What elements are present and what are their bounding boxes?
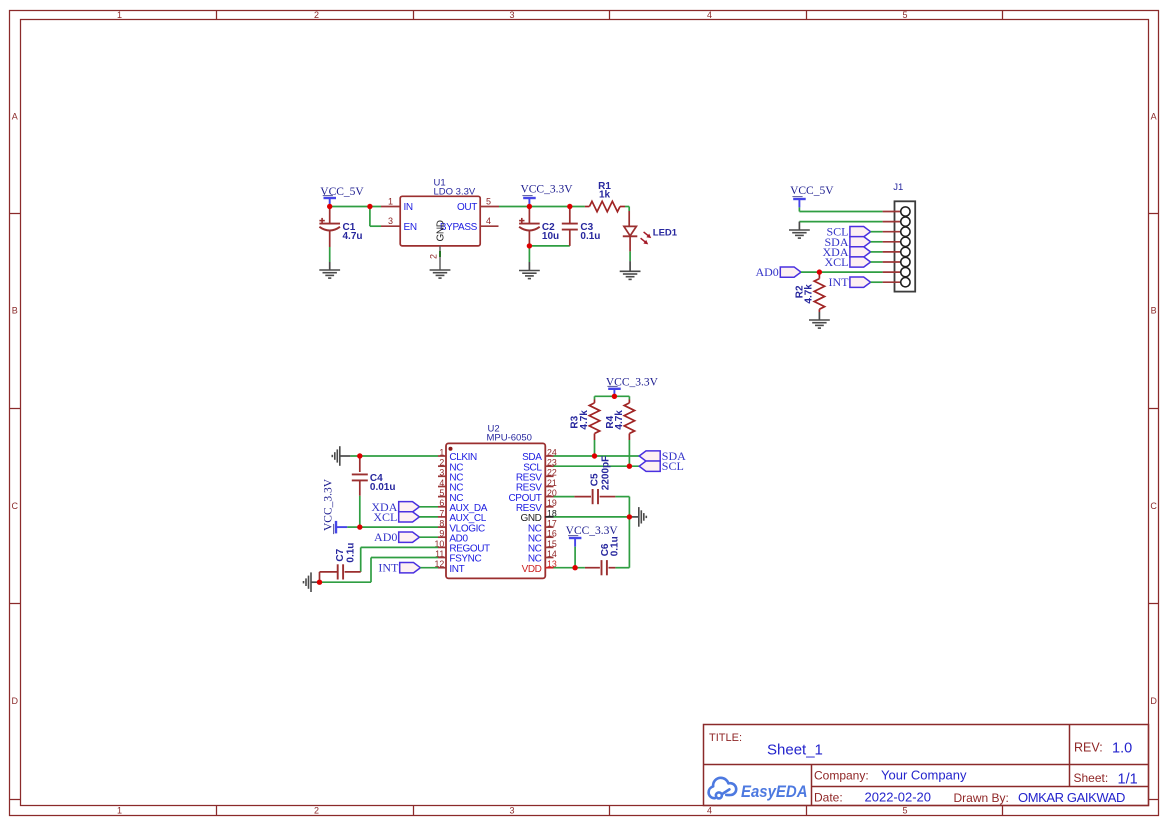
svg-text:VCC_3.3V: VCC_3.3V — [323, 478, 335, 531]
svg-text:GND: GND — [435, 220, 446, 241]
svg-text:0.01u: 0.01u — [370, 482, 396, 493]
svg-text:0.1u: 0.1u — [346, 543, 357, 563]
svg-text:10u: 10u — [542, 231, 559, 242]
svg-text:2: 2 — [429, 254, 439, 259]
svg-text:C: C — [1150, 501, 1157, 511]
svg-text:D: D — [11, 696, 18, 706]
svg-text:B: B — [12, 306, 18, 316]
svg-text:OMKAR GAIKWAD: OMKAR GAIKWAD — [1018, 790, 1125, 805]
svg-text:VCC_3.3V: VCC_3.3V — [520, 184, 573, 196]
svg-text:2: 2 — [439, 458, 444, 468]
svg-text:17: 17 — [547, 519, 557, 529]
svg-text:OUT: OUT — [457, 202, 477, 213]
svg-text:3: 3 — [388, 216, 393, 226]
svg-text:EasyEDA: EasyEDA — [741, 782, 808, 801]
svg-text:C7: C7 — [335, 548, 346, 561]
svg-text:VCC_3.3V: VCC_3.3V — [566, 525, 619, 537]
svg-text:4: 4 — [707, 10, 712, 20]
svg-text:5: 5 — [902, 10, 907, 20]
svg-text:2: 2 — [314, 806, 319, 816]
svg-text:C5: C5 — [589, 473, 600, 486]
svg-text:5: 5 — [486, 196, 491, 206]
svg-text:Company:: Company: — [814, 769, 869, 783]
svg-text:4: 4 — [439, 478, 444, 488]
svg-text:4: 4 — [707, 806, 712, 816]
svg-text:IN: IN — [404, 202, 413, 213]
svg-text:INT: INT — [829, 275, 850, 289]
svg-text:LDO 3.3V: LDO 3.3V — [434, 186, 476, 197]
svg-text:1: 1 — [388, 196, 393, 206]
svg-text:16: 16 — [547, 529, 557, 539]
svg-text:9: 9 — [439, 529, 444, 539]
svg-text:0.1u: 0.1u — [580, 231, 600, 242]
svg-text:C: C — [11, 501, 18, 511]
svg-text:Sheet:: Sheet: — [1074, 771, 1109, 785]
svg-text:INT: INT — [449, 564, 464, 575]
svg-text:VDD: VDD — [522, 564, 542, 575]
svg-text:A: A — [12, 112, 18, 122]
svg-text:8: 8 — [439, 519, 444, 529]
svg-text:INT: INT — [378, 561, 399, 575]
svg-text:Date:: Date: — [814, 791, 843, 805]
svg-text:VCC_5V: VCC_5V — [320, 186, 364, 198]
svg-text:REV:: REV: — [1074, 741, 1103, 755]
svg-text:AD0: AD0 — [755, 265, 778, 279]
svg-text:15: 15 — [547, 539, 557, 549]
svg-text:5: 5 — [902, 806, 907, 816]
svg-text:J1: J1 — [893, 182, 903, 193]
svg-text:Your Company: Your Company — [881, 768, 967, 783]
svg-text:2200pF: 2200pF — [600, 456, 611, 490]
svg-text:19: 19 — [547, 498, 557, 508]
svg-text:2: 2 — [314, 10, 319, 20]
svg-text:7: 7 — [439, 508, 444, 518]
svg-text:4.7k: 4.7k — [614, 410, 625, 430]
svg-text:AD0: AD0 — [374, 530, 397, 544]
svg-text:3: 3 — [439, 468, 444, 478]
svg-text:SCL: SCL — [662, 459, 684, 473]
svg-text:4.7k: 4.7k — [579, 410, 590, 430]
svg-text:2022-02-20: 2022-02-20 — [865, 790, 932, 805]
svg-text:1: 1 — [439, 447, 444, 457]
svg-text:XCL: XCL — [373, 510, 397, 524]
svg-text:3: 3 — [509, 10, 514, 20]
svg-text:1/1: 1/1 — [1118, 772, 1138, 788]
svg-text:Sheet_1: Sheet_1 — [767, 742, 823, 759]
svg-text:3: 3 — [509, 806, 514, 816]
svg-text:5: 5 — [439, 488, 444, 498]
svg-text:B: B — [1151, 306, 1157, 316]
svg-text:1k: 1k — [599, 190, 611, 201]
svg-text:Drawn By:: Drawn By: — [954, 791, 1009, 805]
svg-text:1: 1 — [117, 806, 122, 816]
svg-text:1.0: 1.0 — [1112, 741, 1132, 757]
svg-text:21: 21 — [547, 478, 557, 488]
svg-text:0.1u: 0.1u — [610, 536, 621, 556]
svg-text:TITLE:: TITLE: — [709, 732, 742, 744]
svg-text:MPU-6050: MPU-6050 — [487, 433, 532, 444]
svg-text:EN: EN — [404, 222, 417, 233]
svg-text:VCC_5V: VCC_5V — [790, 185, 834, 197]
svg-text:D: D — [1150, 696, 1157, 706]
svg-text:4.7u: 4.7u — [343, 231, 363, 242]
svg-text:4.7k: 4.7k — [804, 284, 815, 304]
svg-text:XCL: XCL — [825, 255, 849, 269]
svg-text:A: A — [1151, 112, 1157, 122]
svg-text:22: 22 — [547, 468, 557, 478]
svg-text:4: 4 — [486, 216, 491, 226]
svg-text:14: 14 — [547, 549, 557, 559]
svg-text:6: 6 — [439, 498, 444, 508]
svg-text:LED1: LED1 — [653, 227, 678, 238]
svg-text:1: 1 — [117, 10, 122, 20]
